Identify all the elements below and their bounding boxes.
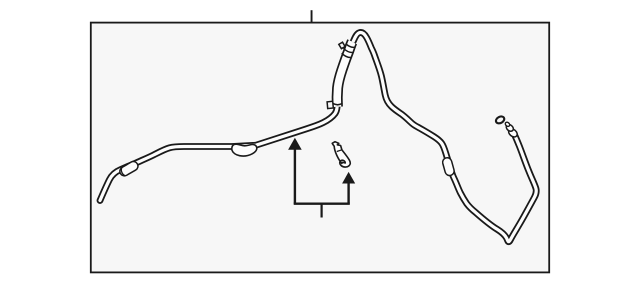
callout arrow left (288, 138, 302, 150)
clip neck line (337, 150, 343, 152)
end fitting nut (505, 121, 519, 138)
main tube white core (100, 33, 536, 242)
sleeve fitting left (124, 166, 133, 171)
O-ring (495, 115, 506, 125)
sleeve left end-cap line (121, 167, 125, 176)
clamp tab bottom (327, 101, 333, 108)
clip part (332, 142, 350, 167)
hose (rubber section) black outline (337, 42, 352, 107)
main tube black outline (100, 33, 536, 242)
frame box (91, 23, 549, 273)
sleeve fitting right (447, 162, 449, 171)
callout arrow right (342, 172, 355, 184)
crimp ring 1 (342, 53, 352, 57)
clamp tab top (339, 42, 345, 49)
grommet bulge (232, 144, 257, 156)
hose bottom end arc (333, 103, 343, 105)
top callout tick (311, 10, 313, 23)
crimp ring 2 (344, 48, 354, 52)
hose white core (337, 42, 352, 107)
crimp ring 3 (346, 44, 356, 48)
bracket horizontal (294, 202, 350, 204)
bracket center tick (321, 204, 323, 218)
